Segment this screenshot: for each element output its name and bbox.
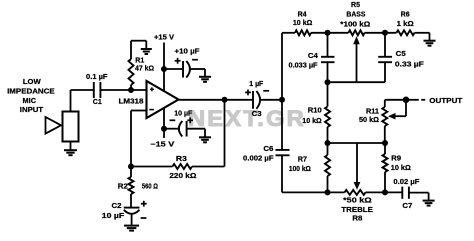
svg-text:NEXT.GR: NEXT.GR (188, 106, 306, 131)
svg-text:BASS: BASS (346, 12, 365, 19)
svg-text:LOW: LOW (23, 79, 41, 86)
svg-text:C4: C4 (308, 53, 318, 60)
svg-text:1 µF: 1 µF (249, 81, 264, 88)
svg-text:0.002 µF: 0.002 µF (243, 155, 274, 162)
svg-text:R10: R10 (308, 108, 322, 115)
svg-text:R9: R9 (391, 156, 401, 163)
svg-text:0.1 µF: 0.1 µF (86, 74, 108, 81)
svg-text:R1: R1 (135, 58, 144, 65)
svg-text:R3: R3 (176, 156, 187, 163)
svg-text:R7: R7 (298, 157, 307, 164)
svg-text:10 kΩ: 10 kΩ (293, 20, 313, 27)
svg-text:560 Ω: 560 Ω (142, 184, 158, 191)
svg-text:C3: C3 (252, 111, 262, 118)
svg-text:C5: C5 (396, 51, 406, 58)
svg-text:C6: C6 (263, 146, 273, 153)
svg-text:OUTPUT: OUTPUT (429, 98, 463, 105)
svg-text:R11: R11 (366, 108, 379, 115)
svg-text:10 µF: 10 µF (174, 111, 193, 118)
svg-text:C7: C7 (402, 203, 412, 210)
svg-text:0.033 µF: 0.033 µF (289, 62, 319, 69)
svg-text:R8: R8 (352, 216, 362, 223)
svg-text:1 kΩ: 1 kΩ (397, 21, 414, 28)
svg-text:47 kΩ: 47 kΩ (135, 66, 154, 73)
svg-text:−15 V: −15 V (150, 142, 174, 149)
svg-text:10 kΩ: 10 kΩ (391, 165, 411, 172)
svg-text:R6: R6 (401, 12, 410, 19)
svg-text:IMPEDANCE: IMPEDANCE (7, 89, 55, 96)
svg-text:10 µF: 10 µF (102, 213, 125, 220)
svg-text:R2: R2 (118, 184, 128, 191)
svg-text:R4: R4 (298, 11, 307, 18)
svg-text:100 kΩ: 100 kΩ (289, 166, 311, 173)
svg-text:*100 kΩ: *100 kΩ (340, 21, 370, 28)
svg-text:MIC: MIC (23, 98, 37, 105)
svg-text:+15 V: +15 V (154, 35, 174, 42)
svg-text:TREBLE: TREBLE (341, 207, 373, 214)
svg-text:R5: R5 (351, 2, 360, 9)
svg-text:10 kΩ: 10 kΩ (302, 118, 322, 125)
svg-text:*50 kΩ: *50 kΩ (343, 197, 372, 204)
svg-text:220 kΩ: 220 kΩ (169, 173, 196, 180)
svg-text:C2: C2 (112, 203, 122, 210)
svg-text:INPUT: INPUT (20, 107, 44, 114)
svg-text:C1: C1 (93, 99, 102, 106)
svg-text:50 kΩ: 50 kΩ (359, 117, 379, 124)
svg-text:0.33 µF: 0.33 µF (395, 61, 425, 68)
svg-text:LM318: LM318 (119, 98, 144, 105)
svg-text:+10 µF: +10 µF (175, 48, 201, 55)
svg-text:0.02 µF: 0.02 µF (393, 179, 420, 186)
